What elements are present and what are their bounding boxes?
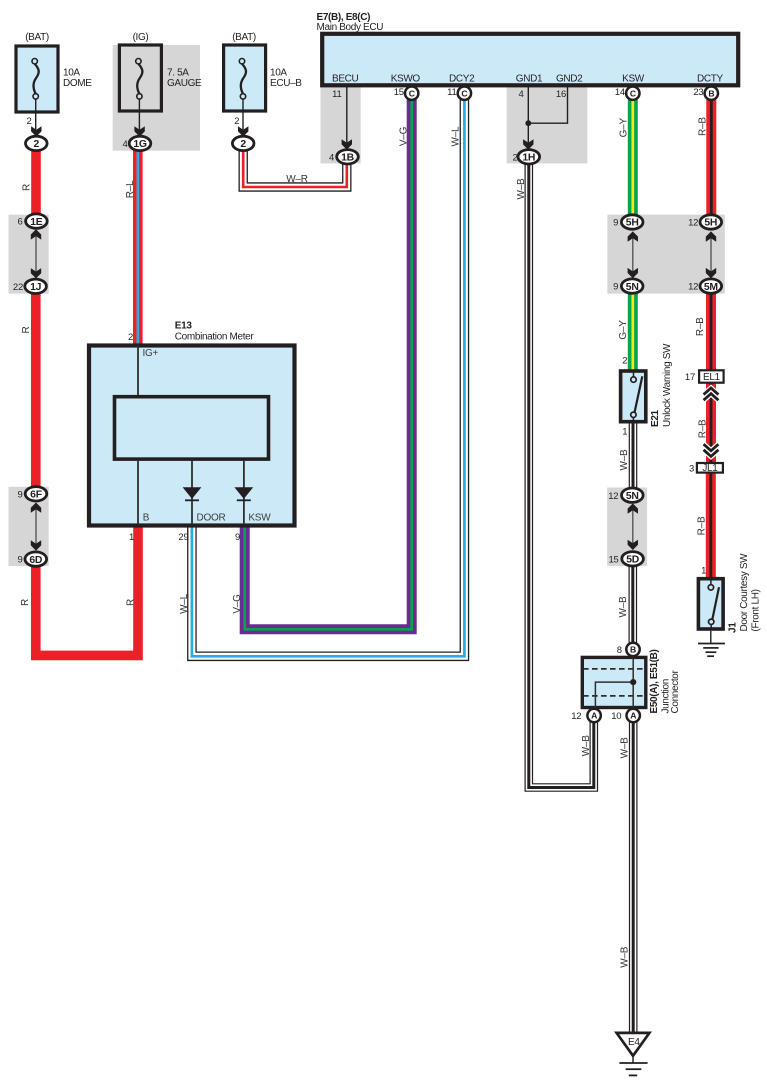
svg-text:W–L: W–L bbox=[451, 126, 462, 147]
svg-text:A: A bbox=[591, 711, 597, 721]
svg-text:9: 9 bbox=[17, 555, 22, 566]
wire GND1 pin 4 bbox=[527, 87, 529, 123]
svg-text:15: 15 bbox=[394, 87, 404, 98]
E4 ground point bbox=[617, 1033, 650, 1076]
svg-text:C: C bbox=[409, 88, 415, 98]
svg-text:R–L: R–L bbox=[125, 180, 136, 198]
svg-text:Combination Meter: Combination Meter bbox=[175, 332, 255, 343]
arrow into connector 1G bbox=[134, 126, 144, 136]
gray background GND/1H bbox=[507, 85, 588, 163]
svg-text:E13: E13 bbox=[175, 321, 193, 332]
connector 2 (DOME fuse) bbox=[26, 136, 48, 150]
gray background 1E/1J bbox=[9, 215, 49, 294]
svg-text:8: 8 bbox=[617, 645, 622, 656]
svg-text:R–B: R–B bbox=[698, 419, 709, 438]
arrows between 5H and 5M bbox=[706, 231, 716, 278]
svg-text:GAUGE: GAUGE bbox=[167, 78, 202, 89]
svg-text:W–L: W–L bbox=[179, 593, 190, 614]
svg-text:2: 2 bbox=[622, 356, 627, 367]
svg-text:E50(A), E51(B): E50(A), E51(B) bbox=[649, 649, 660, 713]
svg-text:DCY2: DCY2 bbox=[449, 74, 475, 85]
svg-text:W–B: W–B bbox=[516, 178, 527, 200]
connector 5M bbox=[700, 279, 722, 293]
E13 Combination Meter box bbox=[89, 346, 295, 526]
svg-text:1B: 1B bbox=[341, 153, 355, 164]
svg-text:DCTY: DCTY bbox=[697, 74, 724, 85]
svg-text:1H: 1H bbox=[522, 153, 535, 164]
svg-text:2: 2 bbox=[26, 116, 31, 127]
svg-text:JL1: JL1 bbox=[702, 463, 718, 474]
svg-text:B: B bbox=[143, 513, 150, 524]
svg-text:R: R bbox=[21, 326, 32, 333]
E13 internal line DOOR with diode bbox=[183, 461, 202, 525]
svg-text:11: 11 bbox=[447, 87, 456, 98]
J1 ground bbox=[698, 631, 725, 656]
svg-text:C: C bbox=[461, 88, 467, 98]
svg-text:17: 17 bbox=[685, 372, 695, 383]
svg-text:V–G: V–G bbox=[232, 594, 243, 614]
svg-text:C: C bbox=[630, 88, 636, 98]
wire BECU pin 11 to 1B bbox=[342, 87, 352, 150]
svg-text:B: B bbox=[708, 88, 714, 98]
svg-text:R: R bbox=[20, 599, 31, 606]
wire GND2 pin 16 bbox=[528, 87, 567, 123]
svg-text:4: 4 bbox=[122, 139, 127, 150]
wire GND node to 1H bbox=[523, 123, 533, 149]
svg-text:R: R bbox=[126, 599, 137, 606]
E21 Unlock Warning SW box bbox=[621, 371, 646, 422]
svg-text:R–B: R–B bbox=[697, 117, 708, 136]
pin circle C KSWO bbox=[405, 87, 418, 100]
fuse 7.5A GAUGE box bbox=[119, 45, 161, 133]
E13 internal line IG+ bbox=[137, 346, 139, 395]
wire R-B from JL1 to J1 bbox=[706, 473, 716, 578]
svg-text:9: 9 bbox=[17, 489, 22, 500]
pin circle A junction connector 12 bbox=[587, 709, 600, 722]
gray background 5N/5D bbox=[607, 488, 647, 566]
svg-text:23: 23 bbox=[693, 87, 703, 98]
svg-text:J1: J1 bbox=[728, 622, 739, 633]
Main Body ECU box E7(B) E8(C) bbox=[322, 34, 738, 86]
svg-text:2: 2 bbox=[240, 139, 246, 150]
gray background GAUGE fuse bbox=[113, 45, 200, 151]
svg-text:W–R: W–R bbox=[286, 174, 308, 185]
svg-text:29: 29 bbox=[178, 532, 188, 543]
svg-text:5H: 5H bbox=[704, 218, 717, 229]
svg-text:DOME: DOME bbox=[63, 78, 92, 89]
E21 switch symbol bbox=[631, 372, 643, 422]
arrows between 6F and 6D bbox=[31, 503, 41, 551]
pin circle C KSW bbox=[626, 87, 639, 100]
svg-text:1E: 1E bbox=[30, 217, 43, 228]
svg-text:6F: 6F bbox=[30, 490, 42, 501]
svg-text:5N: 5N bbox=[626, 491, 639, 502]
svg-text:14: 14 bbox=[615, 87, 625, 98]
connector EL1 bbox=[699, 370, 724, 383]
svg-text:KSWO: KSWO bbox=[391, 74, 421, 85]
svg-text:3: 3 bbox=[689, 463, 694, 474]
svg-text:R: R bbox=[22, 184, 33, 191]
J1 Door Courtesy SW box bbox=[698, 579, 723, 629]
E13 inner block bbox=[115, 397, 269, 459]
junction connector E50(A) E51(B) box bbox=[582, 657, 646, 707]
connector 1J bbox=[25, 279, 47, 293]
svg-text:4: 4 bbox=[518, 89, 523, 100]
svg-text:E4: E4 bbox=[628, 1037, 640, 1048]
connector 5N (KSW) bbox=[621, 279, 643, 293]
arrow into connector 2 (DOME) bbox=[31, 126, 41, 136]
junction node bbox=[630, 679, 636, 685]
svg-text:KSW: KSW bbox=[248, 513, 271, 524]
connector 1H bbox=[518, 150, 540, 164]
svg-text:EL1: EL1 bbox=[703, 372, 721, 383]
svg-text:G–Y: G–Y bbox=[619, 117, 630, 137]
E13 internal line KSW with diode bbox=[234, 461, 253, 525]
wire R-B from DCTY to 5H bbox=[706, 100, 716, 216]
connector 2 (ECU-B fuse) bbox=[232, 136, 254, 150]
svg-text:2: 2 bbox=[34, 139, 40, 150]
svg-text:2: 2 bbox=[128, 332, 133, 343]
svg-text:Connector: Connector bbox=[670, 669, 681, 713]
connector 1E bbox=[26, 214, 48, 228]
connector 5N (W-B) bbox=[622, 488, 644, 502]
svg-text:W–B: W–B bbox=[618, 596, 629, 618]
pin circle B junction connector bbox=[626, 643, 639, 656]
svg-text:(Front LH): (Front LH) bbox=[750, 589, 761, 631]
connector 6D bbox=[25, 552, 47, 566]
J1 switch symbol bbox=[708, 579, 719, 629]
svg-text:ECU–B: ECU–B bbox=[270, 78, 302, 89]
junction connector dashed lines bbox=[583, 668, 645, 670]
pin circle C DCY2 bbox=[458, 87, 471, 100]
svg-text:V–G: V–G bbox=[399, 126, 410, 146]
junction connector internal wire branch to A12 bbox=[595, 682, 633, 708]
connector 5D bbox=[622, 552, 644, 566]
svg-text:1: 1 bbox=[701, 565, 706, 576]
svg-text:(IG): (IG) bbox=[133, 32, 149, 43]
svg-text:5D: 5D bbox=[626, 555, 640, 566]
svg-text:12: 12 bbox=[608, 491, 618, 502]
svg-text:1: 1 bbox=[622, 427, 627, 438]
svg-text:KSW: KSW bbox=[622, 74, 645, 85]
wire W-B from junction connector A10 to E4 ground bbox=[629, 717, 638, 1032]
svg-text:B: B bbox=[630, 645, 636, 655]
svg-text:GND2: GND2 bbox=[556, 74, 583, 85]
gray background BECU/1B bbox=[321, 85, 361, 163]
svg-text:E21: E21 bbox=[650, 409, 661, 427]
svg-text:1G: 1G bbox=[133, 139, 147, 150]
svg-text:22: 22 bbox=[13, 282, 23, 293]
fuse 10A DOME box bbox=[16, 46, 58, 133]
svg-text:Door Courtesy SW: Door Courtesy SW bbox=[739, 553, 750, 632]
splice chevrons down above JL1 bbox=[704, 444, 719, 456]
svg-text:2: 2 bbox=[234, 116, 239, 127]
svg-text:A: A bbox=[630, 711, 636, 721]
gray background 5H/5N/5M bbox=[607, 215, 724, 294]
connector JL1 bbox=[697, 463, 723, 474]
fuse 10A ECU-B box bbox=[224, 45, 266, 133]
arrows between 5N and 5D bbox=[628, 503, 638, 550]
svg-text:9: 9 bbox=[613, 282, 618, 293]
wire W-B from 1H to junction connector A12 bbox=[529, 158, 594, 788]
wire W-B from 5D to B circle bbox=[628, 564, 637, 645]
diode KSW bbox=[234, 487, 253, 499]
connector 5H (DCTY) bbox=[700, 215, 722, 229]
wire R-B from EL1 to JL1 bbox=[706, 383, 716, 462]
svg-text:IG+: IG+ bbox=[143, 348, 159, 359]
arrow into connector 2 (ECU-B) bbox=[238, 126, 248, 136]
wire G-Y from 5N to E21 bbox=[628, 292, 638, 371]
svg-text:G–Y: G–Y bbox=[618, 320, 629, 340]
pin circle B DCTY bbox=[705, 87, 718, 100]
connector 5H (KSW) bbox=[621, 215, 643, 229]
svg-text:2: 2 bbox=[512, 152, 517, 163]
wire V-G from KSWO to E13 KSW bbox=[245, 100, 412, 630]
svg-text:12: 12 bbox=[688, 282, 698, 293]
svg-text:4: 4 bbox=[329, 152, 334, 163]
svg-text:10: 10 bbox=[611, 711, 621, 722]
connector 6F bbox=[25, 487, 47, 501]
svg-text:(BAT): (BAT) bbox=[25, 32, 49, 43]
wire W-L from DCY2 to E13 DOOR bbox=[192, 100, 465, 657]
svg-text:6: 6 bbox=[17, 217, 22, 228]
svg-text:W–B: W–B bbox=[619, 737, 630, 759]
wire R red from 6D to E13 pin B bbox=[36, 525, 138, 655]
wire R-L from 1G to E13 IG+ bbox=[133, 149, 143, 345]
wire W-B from E21 to 5N bbox=[629, 422, 638, 491]
svg-text:W–B: W–B bbox=[581, 735, 592, 757]
svg-text:R–B: R–B bbox=[697, 516, 708, 535]
svg-text:5N: 5N bbox=[626, 282, 639, 293]
svg-text:(BAT): (BAT) bbox=[232, 32, 256, 43]
svg-text:6D: 6D bbox=[29, 555, 43, 566]
svg-text:R–B: R–B bbox=[695, 317, 706, 336]
wire R red from fuse DOME to 1E bbox=[31, 149, 41, 216]
svg-text:Unlock Warning SW: Unlock Warning SW bbox=[662, 343, 673, 427]
svg-text:Main Body ECU: Main Body ECU bbox=[317, 22, 384, 33]
pin circle A junction connector 10 bbox=[627, 709, 640, 722]
svg-text:DOOR: DOOR bbox=[197, 513, 226, 524]
arrows between 5H and 5N bbox=[628, 231, 638, 278]
gray background 6F/6D bbox=[9, 487, 49, 566]
svg-text:BECU: BECU bbox=[332, 74, 359, 85]
connector 1B bbox=[337, 150, 359, 164]
connector 1G bbox=[129, 136, 151, 150]
svg-text:W–B: W–B bbox=[619, 946, 630, 968]
arrows between 1E and 1J bbox=[31, 229, 41, 278]
svg-text:1J: 1J bbox=[30, 282, 42, 293]
svg-text:9: 9 bbox=[235, 532, 240, 543]
wire R red from 1J to 6F bbox=[31, 291, 41, 489]
svg-text:12: 12 bbox=[571, 711, 581, 722]
svg-text:11: 11 bbox=[332, 89, 341, 100]
junction node GND1/GND2 bbox=[525, 120, 531, 126]
wire R-B from 5M to EL1 bbox=[706, 292, 716, 371]
wire G-Y from KSW to 5H bbox=[628, 100, 638, 216]
svg-text:GND1: GND1 bbox=[516, 74, 543, 85]
E13 internal line B bbox=[137, 461, 139, 525]
svg-text:5H: 5H bbox=[626, 218, 639, 229]
svg-text:9: 9 bbox=[613, 218, 618, 229]
diode DOOR bbox=[183, 487, 202, 499]
svg-text:W–B: W–B bbox=[619, 449, 630, 471]
svg-text:5M: 5M bbox=[704, 282, 718, 293]
svg-text:15: 15 bbox=[609, 554, 619, 565]
svg-text:1: 1 bbox=[129, 532, 134, 543]
splice chevrons up below EL1 bbox=[704, 388, 719, 400]
svg-text:12: 12 bbox=[688, 218, 698, 229]
junction connector internal wire B to A10 bbox=[632, 658, 634, 709]
wire W-R from fuse ECU-B to 1B bbox=[243, 149, 347, 187]
svg-text:16: 16 bbox=[556, 89, 566, 100]
